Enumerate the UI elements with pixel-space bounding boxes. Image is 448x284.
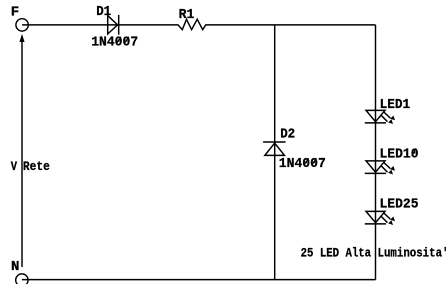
svg-text:V: V: [11, 159, 17, 174]
svg-text:1N4007: 1N4007: [91, 35, 138, 51]
svg-text:1N4007: 1N4007: [279, 156, 326, 172]
svg-text:D1: D1: [96, 4, 111, 20]
svg-text:LED25: LED25: [380, 196, 419, 212]
svg-text:D2: D2: [280, 127, 295, 143]
svg-text:F: F: [11, 4, 19, 20]
svg-text:Luminosita': Luminosita': [378, 245, 448, 260]
svg-text:R1: R1: [179, 7, 195, 23]
svg-text:LED1: LED1: [380, 97, 411, 113]
svg-text:N: N: [11, 259, 19, 275]
svg-text:Rete: Rete: [23, 159, 50, 174]
svg-text:25 LED Alta: 25 LED Alta: [301, 245, 372, 260]
